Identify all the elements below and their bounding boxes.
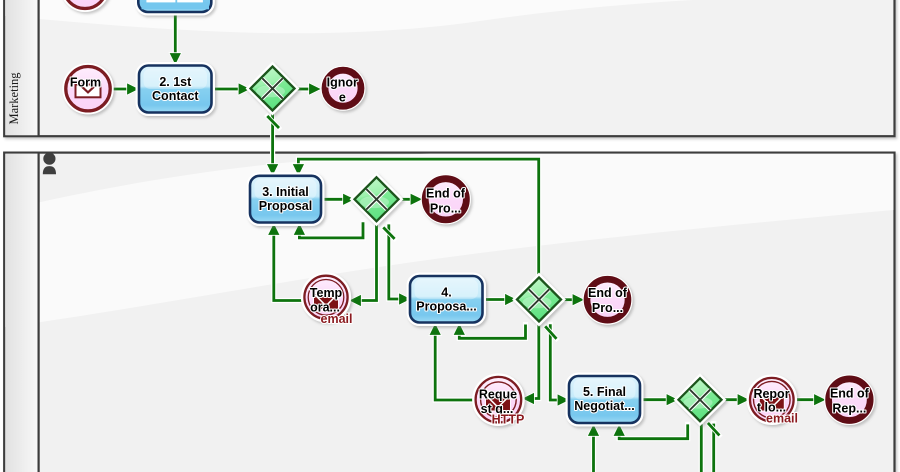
wire gateway G1 to task 4 (default) [389, 224, 400, 299]
task (top, cut off) [138, 0, 211, 12]
task 2. 1st Contact [139, 66, 212, 113]
svg-text:Form: Form [70, 75, 101, 89]
svg-text:email: email [766, 412, 798, 426]
svg-text:2. 1st: 2. 1st [159, 75, 192, 89]
wire gateway G2 loop back to task 3 (long) [298, 159, 538, 277]
end event End of Pro 1 [425, 179, 466, 220]
svg-text:4.: 4. [441, 286, 451, 300]
task 4. Proposa [410, 276, 483, 323]
pool Marketing (top pool) [4, 0, 894, 136]
gateway G3 (XOR) [679, 378, 722, 421]
svg-text:Marketing: Marketing [7, 72, 21, 125]
wire gateway G2 down to Request event [534, 324, 539, 398]
wire gateway G3 to Report event [722, 397, 740, 402]
svg-text:Repor: Repor [753, 387, 789, 401]
wire gateway G3 loop back to task 5 [619, 424, 688, 438]
svg-text:Pro...: Pro... [430, 201, 461, 215]
intermediate event Request q (HTTP) [476, 377, 522, 423]
svg-text:Reque: Reque [479, 387, 517, 401]
wire Temporar event to task 3 [274, 234, 304, 301]
svg-text:email: email [321, 312, 353, 326]
person icon (pool 2 performer) [43, 153, 56, 175]
wire task 2 to gateway G0 [212, 86, 241, 91]
svg-text:Ignor: Ignor [327, 76, 358, 90]
svg-text:3. Initial: 3. Initial [262, 185, 309, 199]
wire gateway G0 down to task 3 (default, crosses pools) [270, 111, 275, 166]
default slash on G1 wire [383, 227, 394, 239]
wire gateway G1 down to Temporar event [361, 224, 377, 301]
svg-text:End of: End of [588, 286, 628, 300]
wire task 4 to gateway G2 [483, 297, 507, 302]
svg-text:Proposal: Proposal [259, 199, 313, 213]
wire gateway G1 loop back to task 3 [299, 222, 363, 238]
default slash on G2 wire [545, 326, 556, 339]
intermediate event Report lo (email) [750, 378, 794, 422]
gateway G1 (XOR) [355, 177, 399, 221]
default slash on G3 wire [708, 423, 720, 436]
end event End of Pro 2 [587, 279, 628, 320]
gateway G2 (XOR) [517, 278, 561, 322]
svg-text:Rep...: Rep... [832, 402, 866, 416]
wire task 5 to gateway G3 [640, 397, 668, 402]
svg-text:Pro...: Pro... [592, 301, 623, 315]
svg-text:End of: End of [426, 186, 466, 200]
wire from bottom into task 5 [591, 435, 596, 472]
svg-text:e: e [339, 90, 346, 104]
wire gateway G2 loop back to task 4 [459, 325, 525, 339]
wire gateway G3 down right (default, cut at bottom) [711, 424, 716, 472]
svg-text:5. Final: 5. Final [583, 385, 626, 399]
wire gateway G2 to task 5 (default) [550, 324, 559, 400]
pool 2 (bottom pool) [4, 153, 894, 472]
intermediate event Temporar (email) [304, 276, 347, 319]
wire gateway G1 to end event End of Pro 1 [399, 197, 413, 202]
task 3. Initial Proposal [250, 176, 321, 223]
gateway G0 (XOR) [251, 67, 295, 111]
svg-text:End of: End of [830, 387, 870, 401]
wire Request event to task 4 [435, 334, 474, 400]
end event End of Rep [829, 379, 871, 421]
start event Form [66, 67, 110, 111]
svg-text:Negotiat...: Negotiat... [574, 399, 634, 413]
wire top task to task 2 [173, 12, 178, 55]
start event (top, cut off) [64, 0, 107, 9]
svg-text:HTTP: HTTP [492, 412, 525, 426]
wire gateway G0 to Ignore end event [295, 86, 311, 91]
end event Ignore [325, 70, 361, 106]
svg-text:Temp: Temp [310, 286, 343, 300]
svg-text:Proposa...: Proposa... [416, 300, 476, 314]
wire gateway G2 to end event End of Pro 2 [561, 297, 574, 302]
wire Form event to task 2 [112, 86, 129, 91]
wire gateway G3 down (cut at bottom) [699, 424, 704, 472]
svg-text:Contact: Contact [152, 89, 199, 103]
default slash on G0 wire [267, 116, 279, 128]
wire Report event to end event End of Rep [795, 397, 816, 402]
wire task 3 to gateway G1 [321, 197, 345, 202]
task 5. Final Negotiat [569, 376, 640, 423]
